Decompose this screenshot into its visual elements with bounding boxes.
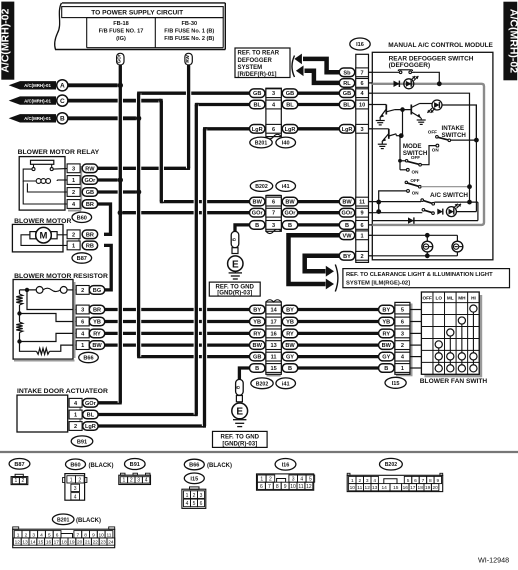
svg-text:3: 3 bbox=[200, 493, 203, 499]
svg-text:[R/DEF(R)-01]: [R/DEF(R)-01] bbox=[238, 72, 277, 78]
svg-text:LgR: LgR bbox=[342, 127, 353, 133]
svg-text:BW: BW bbox=[285, 200, 295, 206]
svg-text:17: 17 bbox=[270, 320, 276, 326]
svg-text:ON: ON bbox=[412, 191, 420, 196]
svg-text:4: 4 bbox=[373, 478, 376, 484]
svg-text:B87: B87 bbox=[14, 462, 24, 468]
svg-text:GOr: GOr bbox=[84, 178, 96, 184]
svg-text:FB-30: FB-30 bbox=[182, 21, 198, 27]
svg-text:18: 18 bbox=[61, 540, 67, 546]
svg-text:F/B FUSE NO. 17: F/B FUSE NO. 17 bbox=[99, 28, 144, 34]
svg-text:6: 6 bbox=[272, 200, 275, 206]
svg-text:A/C(MRH)-02: A/C(MRH)-02 bbox=[0, 8, 12, 72]
svg-text:BR: BR bbox=[86, 202, 94, 208]
svg-text:2: 2 bbox=[72, 190, 75, 196]
svg-text:1: 1 bbox=[17, 532, 20, 538]
svg-text:3: 3 bbox=[81, 308, 84, 314]
svg-text:7: 7 bbox=[272, 211, 275, 217]
svg-text:17: 17 bbox=[54, 540, 60, 546]
svg-text:B66: B66 bbox=[83, 356, 93, 362]
svg-text:13: 13 bbox=[372, 485, 378, 491]
svg-text:19: 19 bbox=[69, 540, 75, 546]
svg-text:WI-12948: WI-12948 bbox=[478, 556, 509, 565]
svg-text:GY: GY bbox=[382, 355, 390, 361]
svg-text:B60: B60 bbox=[70, 462, 80, 468]
svg-text:GB: GB bbox=[86, 190, 94, 196]
svg-text:(BLACK): (BLACK) bbox=[76, 518, 101, 524]
svg-text:6: 6 bbox=[272, 127, 275, 133]
svg-text:(DEFOGGER): (DEFOGGER) bbox=[389, 62, 431, 69]
svg-text:7: 7 bbox=[422, 478, 425, 484]
svg-text:22: 22 bbox=[93, 540, 99, 546]
svg-text:A/C SWITCH: A/C SWITCH bbox=[430, 192, 468, 199]
svg-text:BL: BL bbox=[253, 103, 261, 109]
svg-text:I16: I16 bbox=[282, 462, 290, 468]
svg-text:RY: RY bbox=[383, 331, 391, 337]
svg-text:13: 13 bbox=[22, 540, 28, 546]
svg-text:9: 9 bbox=[92, 532, 95, 538]
svg-text:B: B bbox=[255, 223, 259, 229]
svg-text:9: 9 bbox=[284, 484, 287, 490]
svg-text:BR: BR bbox=[86, 232, 94, 238]
svg-text:15: 15 bbox=[393, 485, 399, 491]
svg-text:[GND(R)-03]: [GND(R)-03] bbox=[222, 440, 257, 447]
svg-text:SWITCH: SWITCH bbox=[442, 132, 467, 139]
svg-text:4: 4 bbox=[300, 477, 303, 483]
svg-text:LgR: LgR bbox=[85, 424, 96, 430]
svg-text:2: 2 bbox=[81, 288, 84, 294]
svg-text:1: 1 bbox=[81, 343, 84, 349]
svg-text:2: 2 bbox=[74, 424, 77, 430]
svg-text:GB: GB bbox=[253, 355, 261, 361]
svg-text:23: 23 bbox=[100, 540, 106, 546]
svg-text:20: 20 bbox=[432, 485, 438, 491]
svg-text:SYSTEM: SYSTEM bbox=[238, 65, 263, 71]
svg-text:4: 4 bbox=[40, 532, 43, 538]
svg-text:24: 24 bbox=[108, 540, 114, 546]
svg-text:RW: RW bbox=[185, 54, 190, 62]
svg-text:7: 7 bbox=[268, 484, 271, 490]
svg-text:FB-18: FB-18 bbox=[113, 21, 129, 27]
svg-text:GB: GB bbox=[286, 91, 294, 97]
svg-text:1: 1 bbox=[74, 413, 77, 419]
svg-text:5: 5 bbox=[193, 501, 196, 507]
svg-text:BW: BW bbox=[342, 200, 352, 206]
svg-text:I16: I16 bbox=[356, 42, 364, 48]
svg-text:B201: B201 bbox=[255, 141, 268, 147]
svg-text:RL: RL bbox=[343, 81, 351, 87]
svg-text:B: B bbox=[288, 223, 292, 229]
svg-text:BLOWER MOTOR RELAY: BLOWER MOTOR RELAY bbox=[18, 149, 100, 156]
svg-text:12: 12 bbox=[365, 485, 371, 491]
svg-text:BL: BL bbox=[87, 413, 95, 419]
svg-text:2: 2 bbox=[22, 478, 25, 484]
svg-text:BW: BW bbox=[92, 343, 102, 349]
svg-text:14: 14 bbox=[30, 540, 36, 546]
svg-text:LO: LO bbox=[435, 295, 442, 300]
svg-text:1: 1 bbox=[361, 233, 364, 239]
svg-text:B91: B91 bbox=[77, 439, 87, 445]
svg-text:i41: i41 bbox=[282, 381, 290, 387]
svg-text:RY: RY bbox=[286, 331, 294, 337]
svg-text:3: 3 bbox=[272, 91, 275, 97]
svg-text:2: 2 bbox=[193, 493, 196, 499]
svg-text:VW: VW bbox=[342, 233, 352, 239]
svg-text:GY: GY bbox=[286, 355, 294, 361]
svg-text:9: 9 bbox=[436, 478, 439, 484]
svg-text:REF. TO CLEARANCE LIGHT & ILLU: REF. TO CLEARANCE LIGHT & ILLUMINATION L… bbox=[346, 272, 493, 278]
svg-text:GB: GB bbox=[253, 91, 261, 97]
svg-text:E: E bbox=[236, 407, 243, 418]
svg-text:5: 5 bbox=[407, 478, 410, 484]
svg-text:8: 8 bbox=[84, 532, 87, 538]
svg-text:GOr: GOr bbox=[342, 211, 354, 217]
svg-text:A/C(MRH)-01: A/C(MRH)-01 bbox=[24, 98, 51, 103]
svg-text:2: 2 bbox=[78, 477, 81, 483]
svg-text:REF. TO GND: REF. TO GND bbox=[221, 433, 260, 440]
svg-text:2: 2 bbox=[25, 532, 28, 538]
svg-text:3: 3 bbox=[72, 166, 75, 172]
svg-text:LgR: LgR bbox=[285, 127, 296, 133]
svg-text:ON: ON bbox=[412, 169, 420, 174]
svg-text:3: 3 bbox=[32, 532, 35, 538]
svg-text:BW: BW bbox=[382, 343, 392, 349]
svg-text:4: 4 bbox=[145, 478, 148, 484]
svg-text:2: 2 bbox=[361, 254, 364, 260]
svg-text:3: 3 bbox=[74, 486, 77, 492]
svg-text:GOr: GOr bbox=[252, 211, 264, 217]
svg-text:BL: BL bbox=[343, 103, 351, 109]
svg-text:OFF: OFF bbox=[410, 178, 419, 183]
svg-text:ON: ON bbox=[432, 148, 440, 153]
svg-text:6: 6 bbox=[200, 501, 203, 507]
svg-text:B60: B60 bbox=[77, 215, 87, 221]
svg-text:F/B FUSE No. 2 (B): F/B FUSE No. 2 (B) bbox=[164, 36, 214, 42]
svg-text:16: 16 bbox=[46, 540, 52, 546]
svg-text:B: B bbox=[231, 238, 236, 241]
svg-text:6: 6 bbox=[414, 478, 417, 484]
svg-text:BY: BY bbox=[286, 308, 294, 314]
svg-text:E: E bbox=[232, 259, 239, 270]
svg-text:11: 11 bbox=[357, 485, 362, 491]
svg-text:I15: I15 bbox=[392, 381, 400, 387]
svg-text:5: 5 bbox=[401, 308, 404, 314]
svg-text:RY: RY bbox=[93, 331, 101, 337]
svg-text:4: 4 bbox=[74, 494, 77, 500]
svg-text:I40: I40 bbox=[282, 141, 290, 147]
svg-text:B: B bbox=[255, 366, 259, 372]
svg-text:10: 10 bbox=[99, 532, 105, 538]
svg-text:BY: BY bbox=[253, 308, 261, 314]
svg-text:3: 3 bbox=[361, 127, 364, 133]
svg-text:1: 1 bbox=[260, 477, 263, 483]
svg-text:GOr: GOr bbox=[285, 211, 297, 217]
svg-text:OFF: OFF bbox=[411, 155, 420, 160]
svg-text:3: 3 bbox=[292, 477, 295, 483]
svg-text:8: 8 bbox=[429, 478, 432, 484]
svg-text:I15: I15 bbox=[190, 476, 198, 482]
svg-text:9: 9 bbox=[361, 211, 364, 217]
svg-text:3: 3 bbox=[272, 223, 275, 229]
svg-text:BR: BR bbox=[93, 308, 101, 314]
svg-text:11: 11 bbox=[271, 355, 277, 361]
svg-text:2: 2 bbox=[358, 478, 361, 484]
svg-text:1: 1 bbox=[401, 366, 404, 372]
svg-text:OFF: OFF bbox=[422, 295, 432, 300]
svg-text:HI: HI bbox=[471, 295, 476, 300]
svg-text:YB: YB bbox=[93, 320, 101, 326]
svg-text:A: A bbox=[60, 83, 65, 90]
svg-text:10: 10 bbox=[350, 485, 356, 491]
svg-text:18: 18 bbox=[418, 485, 424, 491]
svg-text:13: 13 bbox=[270, 343, 276, 349]
svg-text:6: 6 bbox=[81, 320, 84, 326]
svg-text:1: 1 bbox=[72, 178, 75, 184]
svg-text:MANUAL A/C CONTROL MODULE: MANUAL A/C CONTROL MODULE bbox=[388, 42, 493, 49]
svg-text:7: 7 bbox=[361, 70, 364, 76]
svg-text:1: 1 bbox=[186, 493, 189, 499]
svg-text:6: 6 bbox=[361, 223, 364, 229]
svg-text:Sb: Sb bbox=[343, 70, 351, 76]
svg-text:11: 11 bbox=[107, 532, 112, 538]
svg-text:4: 4 bbox=[186, 501, 189, 507]
svg-text:REF. TO REAR: REF. TO REAR bbox=[238, 51, 280, 57]
svg-text:RW: RW bbox=[85, 166, 95, 172]
svg-text:B: B bbox=[345, 223, 349, 229]
svg-text:12: 12 bbox=[306, 484, 312, 490]
svg-text:A/C(MRH)-01: A/C(MRH)-01 bbox=[24, 116, 51, 121]
svg-text:BW: BW bbox=[253, 343, 263, 349]
svg-text:ML: ML bbox=[447, 295, 454, 300]
svg-text:1: 1 bbox=[351, 478, 354, 484]
svg-text:BL: BL bbox=[286, 103, 294, 109]
svg-text:14: 14 bbox=[382, 485, 388, 491]
svg-text:OFF: OFF bbox=[428, 130, 437, 135]
svg-text:C: C bbox=[60, 98, 65, 105]
svg-text:F/B FUSE No. 1 (B): F/B FUSE No. 1 (B) bbox=[164, 28, 214, 34]
svg-text:B202: B202 bbox=[385, 462, 398, 468]
svg-text:3: 3 bbox=[401, 331, 404, 337]
svg-text:MH: MH bbox=[458, 295, 466, 300]
svg-text:2: 2 bbox=[72, 232, 75, 238]
svg-text:[GND(R)-03]: [GND(R)-03] bbox=[217, 290, 252, 297]
svg-text:6: 6 bbox=[401, 320, 404, 326]
svg-text:2: 2 bbox=[130, 478, 133, 484]
svg-text:8: 8 bbox=[276, 484, 279, 490]
svg-text:B202: B202 bbox=[255, 184, 268, 190]
svg-text:M: M bbox=[40, 231, 48, 242]
svg-text:6: 6 bbox=[361, 81, 364, 87]
svg-text:(IG): (IG) bbox=[116, 36, 126, 42]
svg-text:B: B bbox=[288, 366, 292, 372]
svg-text:11: 11 bbox=[298, 484, 303, 490]
svg-text:B: B bbox=[60, 116, 65, 123]
svg-text:16: 16 bbox=[270, 331, 276, 337]
svg-text:GB: GB bbox=[343, 91, 351, 97]
svg-text:RY: RY bbox=[253, 331, 261, 337]
svg-text:5: 5 bbox=[309, 477, 312, 483]
svg-text:19: 19 bbox=[425, 485, 431, 491]
svg-text:GOr: GOr bbox=[85, 401, 97, 407]
svg-text:GOr: GOr bbox=[117, 54, 122, 63]
svg-text:LgR: LgR bbox=[252, 127, 263, 133]
svg-text:1: 1 bbox=[123, 478, 126, 484]
svg-text:14: 14 bbox=[270, 308, 277, 314]
svg-text:6: 6 bbox=[260, 484, 263, 490]
svg-text:YB: YB bbox=[382, 320, 390, 326]
svg-text:YB: YB bbox=[286, 320, 294, 326]
svg-text:3: 3 bbox=[137, 478, 140, 484]
svg-text:6: 6 bbox=[56, 532, 59, 538]
svg-text:DEFOGGER: DEFOGGER bbox=[238, 58, 273, 64]
svg-text:BW: BW bbox=[253, 200, 263, 206]
svg-text:BG: BG bbox=[93, 288, 101, 294]
svg-text:B: B bbox=[384, 366, 388, 372]
svg-text:5: 5 bbox=[48, 532, 51, 538]
svg-text:YB: YB bbox=[253, 320, 261, 326]
svg-text:BY: BY bbox=[382, 308, 390, 314]
svg-text:(BLACK): (BLACK) bbox=[89, 463, 114, 469]
svg-text:BLOWER FAN SWITH: BLOWER FAN SWITH bbox=[420, 378, 488, 385]
svg-text:10: 10 bbox=[290, 484, 296, 490]
svg-text:10: 10 bbox=[359, 103, 365, 109]
svg-text:1: 1 bbox=[14, 478, 17, 484]
svg-text:RB: RB bbox=[86, 243, 94, 249]
svg-text:15: 15 bbox=[38, 540, 44, 546]
svg-text:17: 17 bbox=[410, 485, 416, 491]
svg-text:20: 20 bbox=[77, 540, 83, 546]
svg-text:7: 7 bbox=[76, 532, 79, 538]
svg-text:11: 11 bbox=[359, 200, 365, 206]
svg-text:21: 21 bbox=[85, 540, 91, 546]
svg-text:B91: B91 bbox=[130, 462, 140, 468]
svg-text:SYSTEM [ILM(RGE)-02]: SYSTEM [ILM(RGE)-02] bbox=[346, 280, 410, 286]
svg-text:2: 2 bbox=[401, 343, 404, 349]
svg-text:B202: B202 bbox=[256, 381, 269, 387]
svg-text:15: 15 bbox=[270, 366, 276, 372]
svg-text:12: 12 bbox=[15, 540, 21, 546]
svg-text:B66: B66 bbox=[189, 463, 199, 469]
svg-text:(BLACK): (BLACK) bbox=[207, 463, 232, 469]
svg-text:BY: BY bbox=[343, 254, 351, 260]
svg-text:A/C(MRH)-01: A/C(MRH)-01 bbox=[24, 83, 51, 88]
svg-text:1: 1 bbox=[70, 477, 73, 483]
svg-text:16: 16 bbox=[403, 485, 409, 491]
svg-text:B201: B201 bbox=[57, 517, 70, 523]
svg-text:B87: B87 bbox=[77, 256, 87, 262]
svg-text:2: 2 bbox=[269, 477, 272, 483]
svg-text:1: 1 bbox=[72, 243, 75, 249]
svg-text:i41: i41 bbox=[282, 184, 290, 190]
svg-text:BW: BW bbox=[285, 343, 295, 349]
svg-text:INTAKE DOOR ACTUATEOR: INTAKE DOOR ACTUATEOR bbox=[17, 388, 108, 395]
svg-text:TO POWER SUPPLY CIRCUIT: TO POWER SUPPLY CIRCUIT bbox=[91, 10, 183, 17]
svg-text:A/C(MRH)-02: A/C(MRH)-02 bbox=[508, 9, 518, 73]
svg-text:B: B bbox=[236, 386, 241, 389]
svg-text:3: 3 bbox=[366, 478, 369, 484]
